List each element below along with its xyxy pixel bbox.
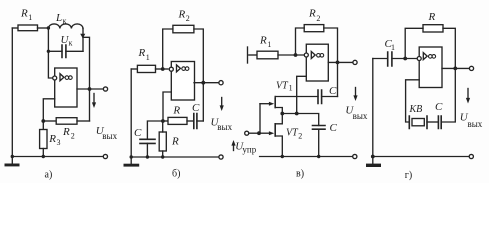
- arrow Uupr: [233, 145, 235, 151]
- wire R1 left: [12, 27, 18, 29]
- svg-text:R: R: [308, 7, 316, 19]
- svg-text:к: к: [63, 17, 67, 26]
- wire R-C series b: [187, 120, 194, 122]
- wire mid line v: [282, 114, 318, 126]
- crystal KV: [409, 116, 427, 129]
- resistor R parallel b: [159, 132, 166, 151]
- node VT2 source rail: [281, 155, 284, 158]
- capacitor C lower v: [313, 126, 326, 130]
- node output v: [336, 61, 340, 65]
- wire KV to C g: [427, 121, 438, 123]
- svg-text:R: R: [171, 135, 179, 147]
- svg-text:1: 1: [391, 43, 395, 52]
- wire C parallel bottom b: [146, 143, 148, 157]
- svg-text:R: R: [138, 47, 146, 59]
- resistor R3: [40, 130, 47, 149]
- svg-text:C: C: [329, 85, 337, 97]
- svg-text:вых: вых: [102, 131, 117, 141]
- node noninv mid v: [295, 112, 299, 116]
- terminal out top g: [469, 66, 473, 70]
- wire output a: [77, 88, 104, 90]
- capacitor Uk: [62, 45, 66, 58]
- svg-text:вых: вых: [468, 119, 483, 129]
- node inv v: [294, 53, 298, 57]
- svg-text:R: R: [48, 133, 56, 145]
- node rail-left g: [371, 155, 375, 159]
- svg-text:R: R: [428, 11, 436, 23]
- wire C lower bottom v: [318, 129, 320, 156]
- ground b: [124, 164, 140, 167]
- resistor R series b: [168, 117, 187, 124]
- wire to R1 v: [249, 54, 257, 56]
- svg-text:R: R: [172, 104, 180, 116]
- svg-text:C: C: [435, 101, 443, 113]
- wire output v: [328, 61, 353, 63]
- wire R1 left b: [131, 68, 137, 70]
- node output b: [201, 81, 205, 85]
- wire R parallel top: [162, 121, 164, 132]
- wire C right g: [441, 68, 455, 122]
- node R parallel rail: [161, 155, 164, 158]
- inductor Lk: [48, 24, 83, 29]
- svg-text:г): г): [405, 170, 412, 181]
- wire to R2 a: [43, 120, 56, 122]
- svg-text:VT: VT: [276, 80, 289, 91]
- svg-text:1: 1: [289, 84, 293, 93]
- wire left rail g: [372, 59, 374, 157]
- op-amp U1 b: [169, 62, 194, 101]
- svg-text:R: R: [62, 126, 70, 138]
- wire R1 right b: [156, 68, 169, 70]
- svg-text:вых: вых: [217, 122, 232, 132]
- wire noninv g: [406, 80, 420, 122]
- wire bottom rail b: [131, 156, 218, 158]
- terminal out top v: [353, 60, 357, 64]
- svg-text:R: R: [178, 9, 186, 21]
- capacitor C1 g: [388, 52, 392, 66]
- svg-text:упр: упр: [242, 144, 256, 154]
- capacitor C series b: [194, 114, 197, 129]
- node rail-left a: [11, 155, 14, 158]
- ground g: [366, 164, 381, 167]
- transistor VT2: [259, 114, 282, 157]
- node VT drains v: [280, 112, 284, 116]
- resistor R1 b: [137, 65, 155, 72]
- svg-text:2: 2: [186, 14, 190, 23]
- op-amp U1 g: [417, 47, 442, 88]
- svg-text:2: 2: [316, 14, 320, 23]
- wire R1 right: [38, 27, 49, 29]
- wire R1 right v: [278, 54, 304, 56]
- wire bottom rail v: [260, 156, 353, 158]
- arrow Uvyh v: [355, 88, 357, 98]
- resistor R2 v: [304, 25, 324, 32]
- wire R3 bottom: [42, 149, 44, 157]
- svg-text:в): в): [296, 168, 304, 179]
- arrow Uvyh b: [221, 98, 223, 108]
- wire node A down to opamp input: [48, 28, 52, 78]
- svg-text:3: 3: [57, 138, 61, 147]
- arrow Uvyh g: [467, 89, 469, 100]
- transistor VT1: [260, 97, 282, 114]
- svg-text:1: 1: [146, 53, 150, 62]
- wire R2 right a: [77, 120, 90, 122]
- node feedback a: [41, 119, 45, 123]
- terminal out bottom v: [353, 154, 357, 158]
- terminal out top b: [219, 81, 223, 85]
- wire C series right b: [197, 120, 203, 122]
- wire noninv v: [297, 76, 307, 113]
- capacitor C parallel b: [140, 139, 155, 143]
- svg-text:к: к: [69, 39, 73, 48]
- wire node B to right branch: [83, 37, 90, 121]
- svg-text:VT: VT: [286, 127, 299, 138]
- wire Uupr v: [249, 132, 259, 134]
- wire C1 left g: [373, 58, 388, 60]
- svg-text:2: 2: [71, 132, 75, 141]
- ground input bar v: [247, 47, 249, 63]
- terminal out bottom a: [103, 154, 107, 158]
- wire C parallel top b: [147, 121, 163, 139]
- wire R right g: [443, 28, 455, 68]
- wire output g: [442, 67, 469, 69]
- node output a: [88, 87, 92, 91]
- node R3 rail: [42, 155, 45, 158]
- svg-text:C: C: [192, 102, 200, 114]
- wire noninv input a: [43, 99, 54, 130]
- wire cap right: [66, 50, 83, 52]
- terminal out top a: [103, 87, 107, 91]
- arrow Uvyh a: [93, 94, 95, 105]
- svg-text:R: R: [20, 7, 28, 19]
- node C lower rail: [317, 155, 320, 158]
- wire R parallel bottom: [162, 151, 164, 157]
- wire R2 right v: [324, 28, 338, 97]
- node inv g: [403, 57, 407, 61]
- wire R2 right b: [194, 29, 203, 121]
- terminal out bottom b: [219, 155, 223, 159]
- node rail-left b: [130, 155, 133, 158]
- terminal out bottom g: [469, 154, 473, 158]
- svg-text:вых: вых: [353, 111, 368, 121]
- ground a: [11, 157, 13, 164]
- svg-text:1: 1: [28, 13, 32, 22]
- terminal Uupr v: [245, 131, 249, 135]
- resistor R g: [423, 25, 443, 32]
- wire Lk right down: [82, 29, 84, 52]
- wire output b: [194, 82, 219, 84]
- wire C1 right g: [392, 58, 417, 60]
- svg-text:L: L: [55, 12, 62, 24]
- svg-text:1: 1: [267, 40, 271, 49]
- wire left rail a: [11, 28, 13, 157]
- svg-text:КВ: КВ: [409, 104, 423, 115]
- svg-text:C: C: [330, 122, 338, 134]
- op-amp U1: [53, 68, 77, 107]
- capacitor C g: [438, 116, 441, 129]
- node N1 b: [161, 119, 165, 123]
- wire cap left: [48, 50, 62, 52]
- wire noninv b: [163, 92, 171, 121]
- wire cap upper left v: [275, 96, 318, 98]
- resistor R2 a: [56, 118, 77, 125]
- svg-text:C: C: [134, 127, 142, 139]
- node cap left: [47, 50, 50, 53]
- wire gate riser v: [259, 104, 261, 134]
- wire R left g: [405, 28, 423, 58]
- svg-text:2: 2: [298, 132, 302, 141]
- wire R2 left b: [163, 29, 173, 69]
- op-amp U1 v: [304, 44, 328, 81]
- wire bottom rail g: [373, 156, 469, 158]
- node C parallel rail: [146, 155, 149, 158]
- resistor R1: [18, 25, 38, 31]
- node A: [47, 26, 50, 29]
- node Uupr v: [257, 131, 261, 135]
- svg-text:б): б): [172, 168, 180, 179]
- node output g: [453, 67, 457, 71]
- wire N1 to R series: [163, 120, 168, 122]
- resistor R2 b: [173, 25, 194, 33]
- node B: [80, 34, 85, 39]
- wire bottom rail a: [12, 156, 103, 158]
- svg-text:а): а): [45, 170, 53, 181]
- capacitor C upper v: [318, 90, 322, 104]
- node inv b: [161, 67, 165, 71]
- wire R2 left v: [296, 28, 305, 55]
- wire left rail b: [130, 69, 132, 157]
- svg-text:R: R: [259, 35, 267, 47]
- resistor R1 v: [257, 51, 278, 59]
- wire cap upper right v: [322, 96, 338, 98]
